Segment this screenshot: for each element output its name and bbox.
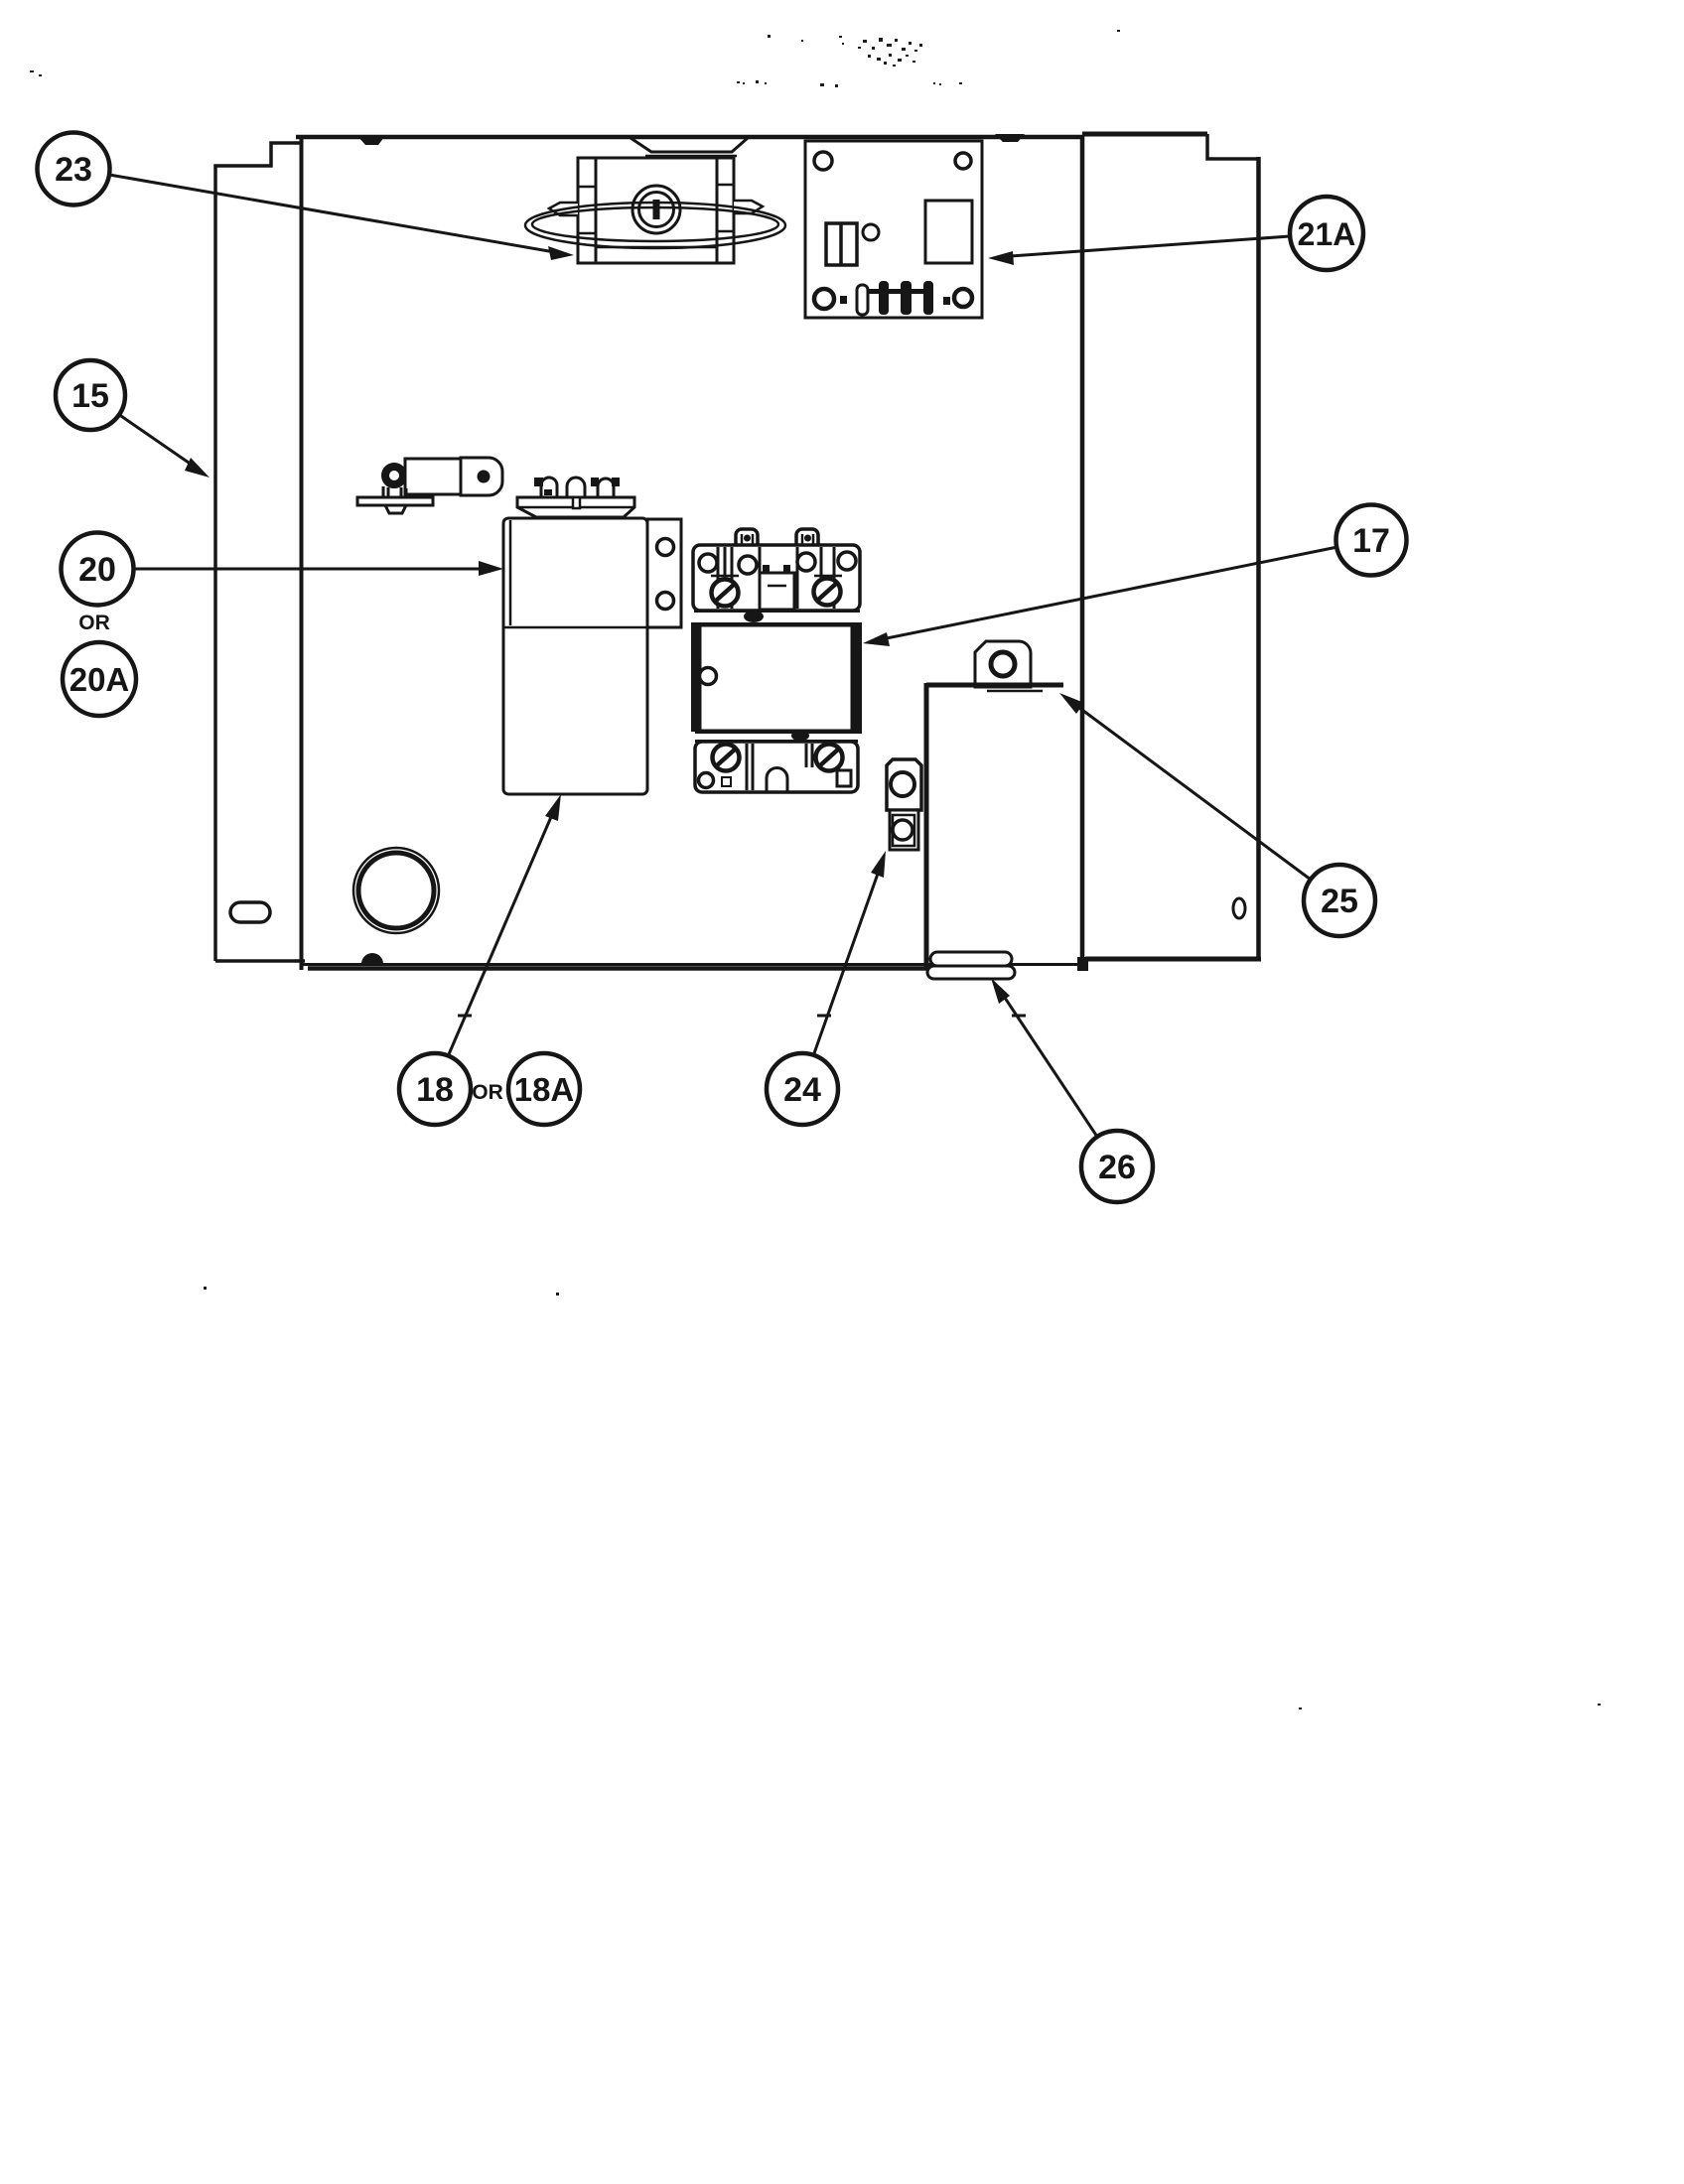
callout 24	[767, 1053, 838, 1125]
leader 17	[863, 547, 1337, 646]
contactor 17 upper band	[694, 610, 860, 613]
panel 15 top edge	[296, 135, 1084, 140]
panel 15 top edge weld tab	[358, 137, 384, 145]
panel bottom edge bump	[361, 953, 383, 964]
svg-text:21A: 21A	[1298, 216, 1356, 252]
panel 15 bottom edge	[301, 963, 1079, 966]
callout 18A	[508, 1053, 580, 1125]
part 23 right terminal tab	[734, 201, 763, 213]
panel right wall top edge	[1082, 132, 1207, 137]
callout 26	[1081, 1131, 1153, 1202]
svg-text:26: 26	[1098, 1149, 1136, 1186]
leader 23	[109, 175, 574, 260]
capacitor 18 terminals	[534, 478, 620, 496]
svg-text:18: 18	[416, 1071, 454, 1109]
scan speckles	[30, 30, 1601, 1709]
callout 23	[38, 133, 110, 205]
callout 18	[399, 1053, 471, 1125]
leader 20	[134, 561, 503, 576]
clamp bracket	[357, 458, 502, 513]
svg-text:OR: OR	[472, 1081, 503, 1104]
part 23 bail wire loop	[525, 203, 785, 248]
panel right wall bottom edge	[1085, 957, 1261, 962]
capacitor 18 crimp top	[517, 497, 634, 517]
leader 21A	[988, 236, 1290, 265]
callout 25	[1304, 865, 1375, 936]
part 23 capacitor body	[578, 158, 734, 263]
panel right wall vertical fold line	[1080, 136, 1085, 964]
panel 15 left flange	[215, 143, 305, 961]
contactor 17 spade lug left	[731, 529, 764, 553]
callout 20A	[63, 642, 136, 716]
leader 24	[814, 851, 886, 1053]
capacitor 18 can	[503, 518, 647, 794]
svg-text:OR: OR	[78, 612, 110, 634]
contactor 17 top block	[693, 545, 860, 611]
part 23 left terminal tab	[549, 203, 578, 215]
svg-text:15: 15	[71, 377, 109, 415]
callout 21A	[1290, 197, 1363, 270]
cover 25	[926, 683, 1063, 967]
contactor 17 bottom block	[695, 742, 858, 792]
part 23 terminal circle	[632, 186, 680, 233]
callout 15	[56, 360, 125, 430]
bracket 24	[887, 759, 921, 850]
contactor 17	[691, 529, 862, 792]
panel bottom step junction	[1077, 957, 1088, 971]
leader 18	[449, 794, 561, 1054]
contactor 17 top screws	[712, 579, 841, 607]
leader 15	[118, 414, 210, 478]
panel round hole	[353, 848, 439, 933]
cover 25 top tab	[975, 641, 1031, 687]
contactor 17 lower band	[695, 731, 858, 734]
part 23 vent trapezoid	[631, 138, 748, 152]
svg-text:24: 24	[783, 1071, 821, 1109]
panel small oval hole right	[1233, 898, 1245, 918]
leader 25	[1059, 693, 1311, 880]
svg-text:17: 17	[1352, 522, 1390, 560]
svg-text:18A: 18A	[514, 1071, 575, 1108]
capacitor 18 strap bracket	[647, 519, 681, 627]
contactor 17 main body	[691, 622, 701, 732]
strip 26	[927, 952, 1015, 979]
callout 20	[62, 533, 134, 606]
panel 15 top edge right tab	[995, 134, 1025, 142]
panel right wall right edge	[1256, 157, 1261, 959]
part 21A circuit board	[805, 141, 982, 318]
svg-text:20: 20	[78, 551, 116, 589]
svg-text:25: 25	[1321, 883, 1358, 920]
panel oblong slot	[230, 902, 270, 922]
svg-text:23: 23	[55, 151, 92, 189]
panel right wall top step	[1207, 134, 1258, 159]
callout 17	[1336, 505, 1407, 576]
contactor 17 spade lug right	[791, 529, 824, 553]
svg-text:20A: 20A	[70, 661, 130, 698]
leader 26	[991, 978, 1097, 1137]
panel 15 inner panel left edge	[300, 139, 304, 970]
